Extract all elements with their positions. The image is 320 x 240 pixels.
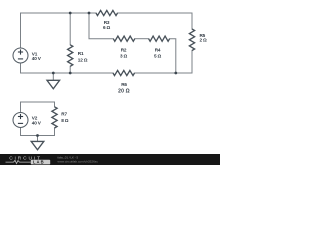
svg-text:www.circuitlab.com/ch3526zc: www.circuitlab.com/ch3526zc: [58, 160, 99, 164]
svg-text:R4: R4: [155, 48, 161, 53]
svg-text:40 V: 40 V: [32, 121, 42, 126]
svg-text:12 Ω: 12 Ω: [78, 58, 88, 63]
svg-text:6 Ω: 6 Ω: [103, 25, 111, 30]
svg-text:5 Ω: 5 Ω: [154, 53, 162, 58]
svg-text:R6: R6: [121, 82, 127, 87]
svg-text:3 Ω: 3 Ω: [120, 53, 128, 58]
svg-text:R1: R1: [78, 51, 84, 56]
svg-text:8 Ω: 8 Ω: [61, 118, 69, 123]
svg-text:R2: R2: [121, 48, 127, 53]
svg-text:LAB: LAB: [33, 160, 45, 165]
svg-text:20 Ω: 20 Ω: [118, 88, 130, 94]
svg-text:R7: R7: [61, 112, 67, 117]
svg-text:fabo_01 / LK - 5: fabo_01 / LK - 5: [58, 155, 79, 159]
svg-text:40 V: 40 V: [32, 56, 42, 61]
svg-text:2 Ω: 2 Ω: [200, 38, 208, 43]
